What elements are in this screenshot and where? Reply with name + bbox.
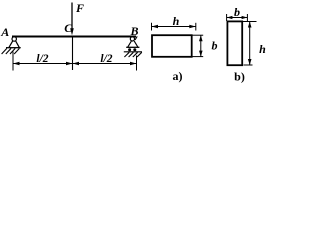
section b) h dimension ticks [243,22,257,66]
extension line at B [136,56,138,71]
svg-text:b: b [234,5,240,19]
section a) h dimension ticks [152,23,196,31]
support B rollers [128,48,136,51]
support B ground line [124,51,142,53]
svg-text:l/2: l/2 [100,53,112,65]
support A pin circle [12,37,16,41]
support A triangle [6,41,21,48]
svg-text:A: A [0,25,9,39]
section b) b dimension ticks [227,14,248,21]
section a) b dimension ticks [193,35,204,56]
svg-text:C: C [64,21,73,35]
svg-text:B: B [129,24,138,38]
extension line at C [72,37,74,70]
section b) h dimension line [248,22,252,66]
svg-text:b: b [212,39,218,53]
dimension line l/2 left [13,62,73,66]
extension line at A [12,52,14,71]
section a) b dimension line [199,35,203,56]
section a) rectangle [152,35,192,57]
beam end tail at B [135,36,137,40]
svg-text:F: F [75,1,84,15]
svg-text:b): b) [234,70,245,84]
section b) b dimension line [227,16,248,19]
support B pin circle [130,37,134,41]
svg-text:h: h [173,14,180,28]
dimension line l/2 right [73,62,137,66]
section a) h dimension line [152,25,196,29]
svg-text:a): a) [173,69,183,83]
force F arrow at C [70,3,74,36]
section b) rectangle [227,21,242,65]
support A ground hatching [2,48,20,54]
svg-text:l/2: l/2 [36,53,48,65]
support B triangle [126,41,139,47]
support B ground hatching [124,52,141,57]
svg-text:h: h [259,42,266,56]
beam AB [12,36,136,38]
